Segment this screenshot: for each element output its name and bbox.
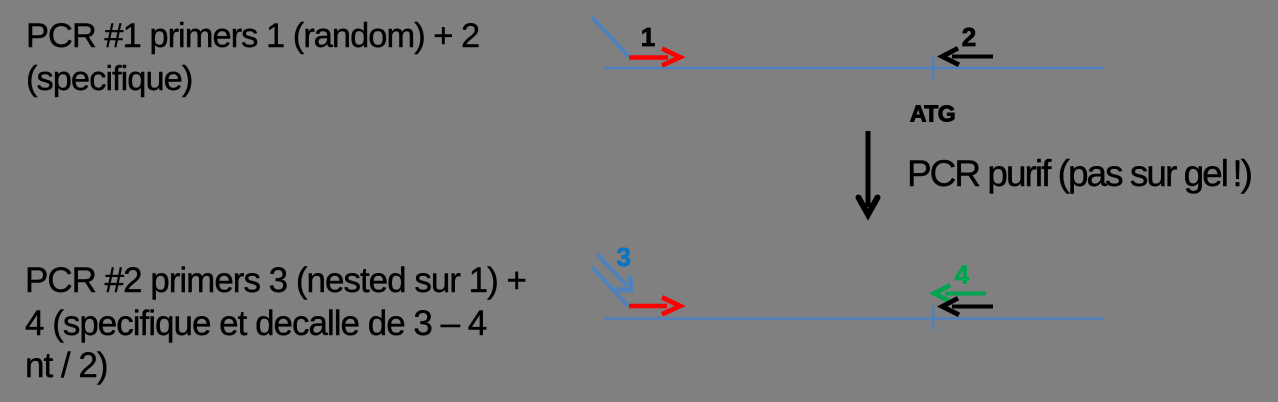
- svg-text:3: 3: [616, 242, 630, 272]
- svg-text:1: 1: [641, 22, 655, 52]
- svg-text:4: 4: [955, 260, 970, 290]
- svg-text:2: 2: [962, 22, 976, 52]
- svg-text:ATG: ATG: [910, 101, 955, 127]
